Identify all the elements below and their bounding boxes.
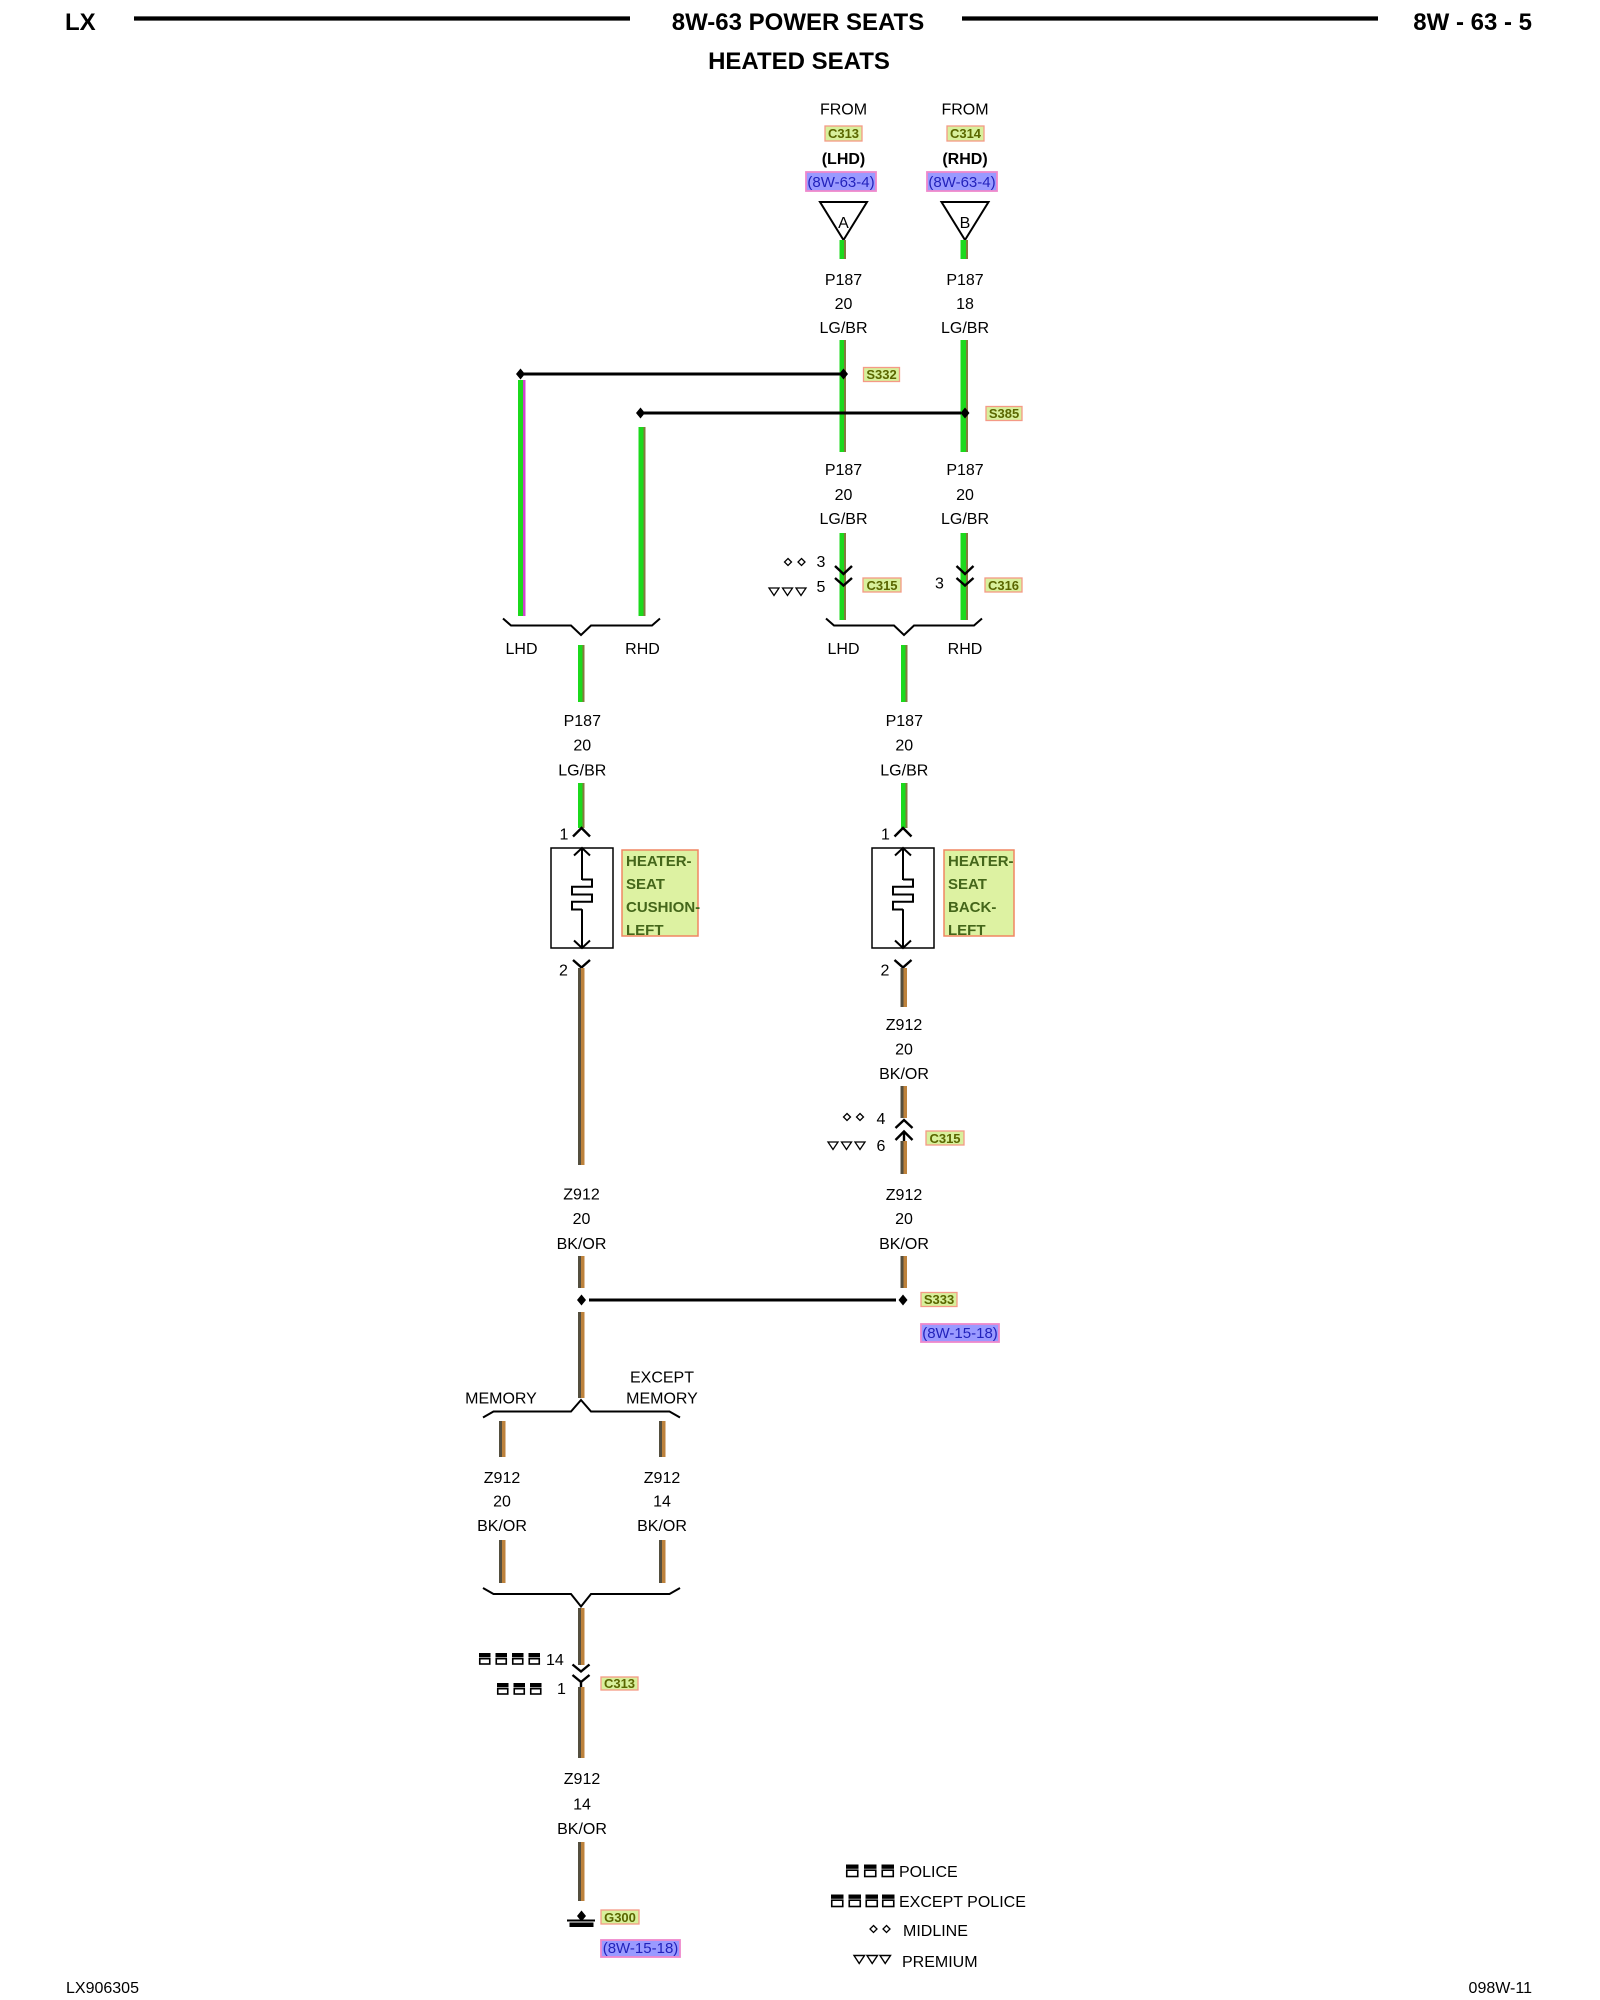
svg-text:BK/OR: BK/OR	[557, 1236, 607, 1253]
splice S385 wire	[644, 412, 961, 415]
pin 1 chevron heater back	[895, 828, 912, 837]
svg-text:20: 20	[573, 1211, 591, 1228]
midline symbols at C315	[785, 559, 806, 566]
svg-text:S385: S385	[989, 406, 1019, 421]
svg-text:LG/BR: LG/BR	[880, 763, 928, 780]
svg-text:C313: C313	[828, 126, 859, 141]
svg-text:P187: P187	[564, 713, 601, 730]
svg-text:P187: P187	[886, 713, 923, 730]
connector C316 chevrons	[957, 566, 974, 586]
splice S332 junction dot right	[839, 369, 848, 380]
svg-text:1: 1	[560, 827, 569, 844]
svg-text:18: 18	[956, 296, 974, 313]
svg-text:P187: P187	[825, 462, 862, 479]
svg-text:098W-11: 098W-11	[1469, 1980, 1533, 1997]
police symbols at C313	[497, 1683, 542, 1694]
wire label Z912 20 BK/OR memory	[477, 1470, 527, 1535]
wire P187 18 LG/BR stub below triangle B	[961, 240, 969, 259]
svg-text:MEMORY: MEMORY	[465, 1391, 537, 1408]
ground label G300	[601, 1910, 639, 1925]
svg-text:LX906305: LX906305	[66, 1980, 139, 1997]
svg-text:(LHD): (LHD)	[822, 151, 866, 168]
reference (8W-63-4) LHD	[806, 172, 876, 191]
wire merged left upper	[578, 645, 585, 702]
wire Z912 to ground	[578, 1842, 585, 1901]
svg-text:(8W-63-4): (8W-63-4)	[928, 174, 995, 191]
svg-text:LG/BR: LG/BR	[819, 320, 867, 337]
heater-seat cushion-left element symbol	[572, 848, 592, 948]
wire label Z912 14 BK/OR bottom	[557, 1771, 607, 1838]
svg-text:3: 3	[817, 554, 826, 571]
svg-text:P187: P187	[946, 272, 983, 289]
wire Z912 right stub to S333	[901, 1256, 908, 1288]
off-page connector triangle B	[942, 202, 989, 240]
wire label P187 18 LG/BR column B	[941, 272, 989, 337]
splice label S332	[864, 367, 900, 382]
svg-text:14: 14	[653, 1494, 671, 1511]
wire memory stub upper	[499, 1421, 506, 1457]
wire column B lower	[961, 533, 969, 620]
svg-text:5: 5	[817, 579, 826, 596]
svg-text:1: 1	[881, 827, 890, 844]
connector C315 chevrons	[835, 566, 852, 586]
splice S385 junction dot left	[636, 408, 645, 419]
svg-text:LEFT: LEFT	[948, 922, 986, 939]
svg-text:SEAT: SEAT	[948, 876, 987, 893]
svg-text:20: 20	[835, 487, 853, 504]
svg-text:FROM: FROM	[820, 102, 867, 119]
connector label C313 (from)	[825, 126, 862, 141]
svg-text:MIDLINE: MIDLINE	[903, 1923, 968, 1940]
wire RHD branch left column	[639, 427, 646, 616]
svg-text:14: 14	[546, 1652, 564, 1669]
svg-text:SEAT: SEAT	[626, 876, 665, 893]
pin 2 chevron heater back	[895, 960, 912, 968]
connector C315 return chevrons	[896, 1120, 913, 1152]
reference (8W-63-4) RHD	[927, 172, 997, 191]
svg-text:S332: S332	[866, 367, 896, 382]
wire Z912 left main	[578, 968, 585, 1165]
wire column B upper	[961, 340, 969, 452]
svg-text:Z912: Z912	[484, 1470, 521, 1487]
wire except-memory stub upper	[659, 1421, 666, 1457]
svg-text:8W-63 POWER SEATS: 8W-63 POWER SEATS	[672, 9, 924, 36]
heater-seat back-left element symbol	[893, 848, 913, 948]
wire Z912 to C313	[578, 1608, 585, 1665]
connector C313 chevrons	[573, 1665, 590, 1688]
svg-text:20: 20	[895, 738, 913, 755]
header rule right	[962, 16, 1378, 20]
splice S333 junction dot left	[577, 1295, 586, 1306]
wire Z912 below C313	[578, 1687, 585, 1758]
svg-text:LX: LX	[65, 9, 96, 36]
reference (8W-15-18) at G300	[601, 1940, 680, 1957]
heater-seat cushion-left element box	[551, 848, 613, 948]
svg-text:Z912: Z912	[563, 1187, 600, 1204]
svg-text:P187: P187	[825, 272, 862, 289]
svg-text:B: B	[960, 215, 971, 232]
svg-text:BK/OR: BK/OR	[879, 1066, 929, 1083]
svg-text:HEATER-: HEATER-	[626, 853, 692, 870]
svg-text:A: A	[838, 215, 849, 232]
wire column A upper	[840, 340, 847, 452]
svg-text:LEFT: LEFT	[626, 922, 664, 939]
svg-text:(8W-15-18): (8W-15-18)	[603, 1940, 679, 1957]
svg-text:(RHD): (RHD)	[942, 151, 987, 168]
svg-text:C315: C315	[866, 578, 897, 593]
svg-text:BK/OR: BK/OR	[879, 1236, 929, 1253]
svg-text:BK/OR: BK/OR	[557, 1821, 607, 1838]
legend police symbols	[846, 1865, 894, 1877]
wire Z912 right seg2	[901, 1086, 908, 1118]
label HEATER-SEAT CUSHION-LEFT	[622, 850, 700, 939]
svg-text:G300: G300	[604, 1910, 636, 1925]
svg-text:C316: C316	[988, 578, 1019, 593]
svg-text:4: 4	[877, 1111, 886, 1128]
svg-text:20: 20	[895, 1211, 913, 1228]
svg-text:C315: C315	[929, 1131, 960, 1146]
wire column A lower	[840, 533, 847, 620]
pin 2 chevron heater cushion	[573, 960, 590, 968]
svg-text:(8W-63-4): (8W-63-4)	[807, 174, 874, 191]
svg-text:FROM: FROM	[941, 102, 988, 119]
except police symbols at C313	[479, 1653, 540, 1664]
svg-text:MEMORY: MEMORY	[626, 1391, 698, 1408]
wire label P187 20 LG/BR column B second	[941, 462, 989, 528]
svg-text:1: 1	[557, 1681, 566, 1698]
brace merge LHD/RHD right	[826, 619, 982, 636]
splice S385 junction dot right	[961, 408, 970, 419]
svg-text:LG/BR: LG/BR	[558, 763, 606, 780]
svg-text:C314: C314	[950, 126, 982, 141]
wire label Z912 20 BK/OR right lower	[879, 1187, 929, 1253]
svg-text:8W - 63 - 5: 8W - 63 - 5	[1413, 9, 1532, 36]
header rule left	[134, 16, 630, 20]
svg-text:P187: P187	[946, 462, 983, 479]
svg-text:Z912: Z912	[886, 1187, 923, 1204]
splice S333 wire	[589, 1299, 896, 1302]
svg-text:LG/BR: LG/BR	[941, 320, 989, 337]
svg-text:20: 20	[493, 1494, 511, 1511]
svg-text:LG/BR: LG/BR	[941, 511, 989, 528]
svg-text:20: 20	[835, 296, 853, 313]
svg-text:CUSHION-: CUSHION-	[626, 899, 700, 916]
legend midline symbols	[870, 1926, 890, 1933]
heater-seat back-left element box	[872, 848, 934, 948]
svg-text:POLICE: POLICE	[899, 1864, 958, 1881]
legend premium symbols	[854, 1956, 891, 1964]
wire merged left lower	[578, 783, 585, 828]
svg-text:HEATED SEATS: HEATED SEATS	[708, 48, 890, 75]
svg-text:RHD: RHD	[948, 641, 983, 658]
wire Z912 left below S333	[578, 1312, 585, 1398]
wire label P187 20 LG/BR merged left	[558, 713, 606, 780]
splice S332 wire	[524, 373, 840, 376]
connector label C314 (from)	[947, 126, 984, 141]
midline symbols at C315 return	[844, 1114, 864, 1121]
svg-text:C313: C313	[604, 1676, 635, 1691]
reference (8W-15-18) at S333	[921, 1324, 999, 1342]
svg-text:20: 20	[956, 487, 974, 504]
ground G300 symbol	[567, 1911, 595, 1925]
splice label S333	[921, 1292, 957, 1307]
connector label C315	[863, 578, 901, 593]
svg-text:3: 3	[935, 576, 944, 593]
connector label C316	[985, 578, 1022, 593]
svg-text:RHD: RHD	[625, 641, 660, 658]
wire Z912 left stub to S333	[578, 1256, 585, 1288]
wire except-memory stub lower	[659, 1540, 666, 1583]
wire label P187 20 LG/BR column A second	[819, 462, 867, 528]
wire merged right upper	[901, 645, 908, 702]
wire LHD branch left column	[518, 380, 526, 616]
connector label C315 return	[926, 1131, 964, 1146]
svg-text:(8W-15-18): (8W-15-18)	[922, 1325, 998, 1342]
svg-text:HEATER-: HEATER-	[948, 853, 1014, 870]
wire merged right lower	[901, 783, 908, 828]
svg-text:PREMIUM: PREMIUM	[902, 1954, 978, 1971]
brace merge above C313	[483, 1588, 680, 1607]
svg-text:Z912: Z912	[644, 1470, 681, 1487]
svg-text:S333: S333	[924, 1292, 954, 1307]
svg-text:14: 14	[573, 1797, 591, 1814]
premium symbols at C315	[769, 588, 806, 596]
wire label P187 20 LG/BR column A	[819, 272, 867, 337]
wire Z912 right seg1	[901, 968, 908, 1007]
legend except police symbols	[831, 1895, 895, 1907]
splice S333 junction dot right	[899, 1295, 908, 1306]
wire label Z912 14 BK/OR except memory	[637, 1470, 687, 1535]
label HEATER-SEAT BACK-LEFT	[944, 850, 1014, 939]
off-page connector triangle A	[820, 202, 867, 240]
splice label S385	[986, 406, 1022, 421]
wire label Z912 20 BK/OR left	[557, 1187, 607, 1254]
brace merge LHD/RHD left	[503, 619, 660, 636]
splice S332 junction dot left	[516, 369, 525, 380]
svg-text:BACK-: BACK-	[948, 899, 996, 916]
wire label Z912 20 BK/OR right upper	[879, 1017, 929, 1083]
premium symbols at C315 return	[828, 1142, 865, 1150]
svg-text:2: 2	[881, 963, 890, 980]
wire P187 20 LG/BR stub below triangle A	[840, 240, 847, 259]
svg-text:Z912: Z912	[564, 1771, 601, 1788]
svg-text:LHD: LHD	[505, 641, 537, 658]
svg-text:EXCEPT POLICE: EXCEPT POLICE	[899, 1894, 1026, 1911]
brace split memory/except-memory	[483, 1400, 680, 1418]
svg-text:LG/BR: LG/BR	[819, 511, 867, 528]
svg-text:Z912: Z912	[886, 1017, 923, 1034]
svg-text:20: 20	[573, 738, 591, 755]
connector label C313	[601, 1676, 638, 1691]
svg-text:BK/OR: BK/OR	[637, 1518, 687, 1535]
wire memory stub lower	[499, 1540, 506, 1583]
svg-text:2: 2	[559, 963, 568, 980]
pin 1 chevron heater cushion	[573, 828, 590, 837]
wire label P187 20 LG/BR merged right	[880, 713, 928, 780]
svg-text:BK/OR: BK/OR	[477, 1518, 527, 1535]
svg-text:20: 20	[895, 1042, 913, 1059]
svg-text:EXCEPT: EXCEPT	[630, 1370, 694, 1387]
wire Z912 right seg3	[901, 1141, 908, 1174]
svg-text:LHD: LHD	[827, 641, 859, 658]
svg-text:6: 6	[877, 1138, 886, 1155]
